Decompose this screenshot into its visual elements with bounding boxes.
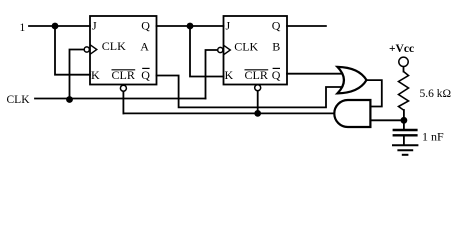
svg-text:Q: Q — [141, 19, 150, 33]
svg-text:K: K — [91, 68, 100, 82]
svg-text:CLR: CLR — [112, 68, 135, 82]
svg-text:J: J — [226, 19, 231, 33]
svg-text:CLR: CLR — [245, 68, 268, 82]
svg-text:CLK: CLK — [102, 39, 126, 53]
svg-text:CLK: CLK — [7, 94, 31, 106]
svg-text:Q: Q — [141, 68, 150, 82]
svg-text:B: B — [272, 40, 280, 54]
svg-text:+Vcc: +Vcc — [389, 43, 414, 55]
svg-text:Q: Q — [272, 68, 281, 82]
svg-text:1: 1 — [20, 22, 26, 34]
svg-text:CLK: CLK — [234, 39, 258, 53]
svg-text:Q: Q — [272, 19, 281, 33]
svg-text:5.6 kΩ: 5.6 kΩ — [420, 88, 452, 100]
svg-text:1 nF: 1 nF — [422, 129, 444, 143]
svg-text:J: J — [92, 19, 97, 33]
svg-text:K: K — [225, 68, 234, 82]
svg-text:A: A — [140, 39, 149, 53]
